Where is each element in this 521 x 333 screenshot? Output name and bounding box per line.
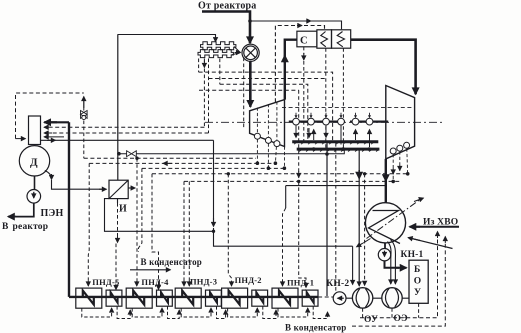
wire: slanted arrow into HX bottom (411, 238, 453, 248)
safety valve on dashed riser (83, 97, 85, 109)
svg-text:ПЭН: ПЭН (41, 208, 64, 219)
wire: HX to KN-1 (384, 243, 386, 249)
wire: steam to 2nd reheat stage (250, 20, 311, 22)
wire: extraction bus y158 (dashed) (84, 157, 256, 159)
wire: reheated steam to LPC (351, 40, 416, 94)
wire: drops to PND-3 (dashed) (183, 181, 185, 283)
wire: LP extraction stems (dashed) (393, 149, 407, 181)
wire: crenellated bars outlet to valve (231, 47, 240, 56)
wire: evaporator steam out right (128, 187, 135, 189)
wire: from XBO into HX (thick arrow) (412, 226, 459, 228)
wire: steam to 2nd reheat stage cont. (311, 21, 342, 29)
wire: gland-header drain verticals (dashed) (198, 59, 200, 73)
wire: collector to KN-2 area (solid) (326, 143, 328, 296)
wire: condensate down to gland cooler OU (352, 246, 354, 284)
svg-text:КН-2: КН-2 (326, 279, 349, 289)
HP extraction point 2 (265, 137, 271, 143)
wire: LP exhaust down to HX (thick) (385, 159, 387, 203)
svg-text:О: О (414, 277, 422, 287)
deaerator tank Д (19, 146, 49, 176)
wire: main steam valve to HPC (249, 62, 252, 107)
wire: PEN discharge to reactor (10, 203, 34, 217)
node: stems of HP extractions (256, 161, 260, 165)
HP turbine cylinder (250, 100, 285, 147)
wire: thin line into deaerator (44, 136, 64, 138)
wire: HP exhaust up to separator (285, 40, 297, 100)
component: gland steam header (crenellated bar lower) (198, 50, 233, 58)
HP extraction point 1 (254, 133, 260, 139)
component: gland steam header (crenellated bar upper) (201, 42, 236, 50)
wire: bus y168 drop to PND-4 (139, 168, 142, 252)
deaerator shell (29, 116, 41, 145)
wire: drain bus 3 (dashed) (220, 84, 308, 141)
wire: leak-off dashed vertical (243, 58, 245, 128)
LP extraction point 3 (404, 142, 410, 148)
wire: long vertical line x118 down to evaporator (117, 35, 119, 181)
wire: bus4 drop to lower bus (298, 90, 300, 181)
wire: riser continues down to PND-5 (dashed) (83, 121, 85, 159)
condensate pump KN-1 (378, 249, 390, 261)
wire: drain bus 2 (dashed) (209, 78, 326, 80)
wire: evaporator steam dashed vertical to PND-4 (136, 158, 138, 283)
LP extraction point 1 (390, 148, 396, 154)
dashed return rails right side (363, 303, 419, 318)
drain cooler 5 (302, 290, 318, 306)
svg-text:ПНД-3: ПНД-3 (190, 277, 217, 287)
valve on evaporator line (117, 152, 121, 156)
wire: extraction bus y181.4 (dashed) (184, 180, 400, 182)
valve: main stop valve (circle with X) (242, 44, 259, 61)
svg-text:Из ХВО: Из ХВО (423, 218, 458, 228)
svg-text:ПНД-4: ПНД-4 (141, 277, 169, 287)
wire: dashed drop x335.8 (335, 143, 337, 294)
heater PND-5 (76, 288, 102, 308)
separator C box (297, 31, 317, 47)
wires: nozzle downcomers with arrows (295, 125, 297, 137)
hatching under collectors (294, 142, 379, 151)
dashed box upper-left (16, 93, 84, 139)
extraction nozzles (circles on manifold) (293, 118, 373, 125)
svg-text:И: И (119, 204, 127, 215)
wire: HX drain curves to OE (388, 242, 392, 285)
collector header 2 (thick) (297, 148, 380, 151)
LP extraction point 2 (397, 145, 403, 151)
drain cooler 2 (157, 290, 173, 306)
wire: drop to PND-2 (dashed) (228, 174, 231, 283)
drain cascade U-connectors (dashed) (82, 306, 328, 318)
wire: line x118 to collector (solid) (119, 149, 344, 154)
wire: main condensate line left riser (thick) (68, 122, 70, 297)
wire: heating steam bus into deaerator (dashed) (52, 126, 204, 128)
extraction manifold bar right (350, 120, 388, 122)
reheater stage 2 box (332, 30, 351, 48)
wire: drop of deaerator drain at x213.5 (213, 140, 215, 222)
wire: dashed stems inside HP (257, 102, 277, 141)
wire: arrow to condenser (middle) (130, 269, 171, 271)
heater PND-3 (175, 288, 201, 308)
wire: deaerator drain going right (41, 139, 214, 141)
wire: bus y173.8 drop to small cooler 2 (152, 174, 159, 288)
svg-text:От реактора: От реактора (198, 1, 257, 12)
extraction manifold bar left (289, 120, 345, 122)
wire: extraction bus y163.4 (dashed, arrow left) (89, 162, 275, 164)
wire: evaporator bottom drain (dashed) to small cooler (117, 199, 119, 203)
svg-text:С: С (300, 36, 308, 47)
wire: bus y163 drop to PND-5 (87, 163, 90, 283)
wire: reheater2 drain (dashed) (342, 48, 344, 149)
LP turbine cylinder (386, 86, 415, 159)
wire: second bus into deaerator (dashed) (52, 132, 209, 134)
wire: extraction bus y173.8 (dashed) (152, 173, 408, 175)
drain cooler 1 (106, 290, 122, 306)
reheater stage 1 box (317, 30, 332, 48)
heater PND-4 (126, 288, 152, 308)
wire: solid feed line to PND-1 (286, 186, 386, 208)
svg-text:ПНД-1: ПНД-1 (287, 277, 314, 287)
heater PND-1 (272, 288, 298, 308)
wire: main steam from reactor (thick L) (202, 12, 250, 44)
collector header 1 (thick) (292, 140, 378, 143)
svg-text:Д: Д (30, 157, 38, 169)
wire: HP extraction stems (dashed) (257, 139, 284, 167)
node: junctions on collector 2 (312, 147, 316, 151)
ticks above nozzles (295, 113, 372, 118)
drain cooler 4 (252, 290, 268, 306)
BOU box (409, 260, 428, 303)
node: junction on main steam (248, 19, 252, 23)
shaft line (dash-dot) (205, 121, 443, 123)
svg-text:ПНД-2: ПНД-2 (235, 275, 262, 285)
heater PND-2 (222, 288, 248, 308)
wire: separator drain (dashed) (303, 47, 305, 55)
svg-text:ОУ: ОУ (364, 315, 378, 325)
svg-text:У: У (414, 288, 421, 298)
wire: dashed link heater row to KN-2 (318, 296, 333, 298)
svg-text:КН-1: КН-1 (401, 250, 424, 260)
wire: deaerator to evaporator feed (45, 171, 52, 180)
wire: reheater1 drain (dashed) (325, 48, 327, 149)
svg-text:ПНД-5: ПНД-5 (92, 277, 119, 287)
heat exchanger circle (gland steam condenser) (365, 203, 405, 243)
feed pump PEN (34, 176, 36, 190)
zigzag inside HX (369, 211, 401, 244)
wire: evaporator drain to condenser line (105, 199, 214, 232)
wire: dashed down to OU (364, 174, 366, 284)
svg-text:Вреактор: Вреактор (2, 222, 48, 232)
wire: drain bus 4 (dashed) (199, 89, 299, 91)
node: junction (212, 230, 215, 233)
svg-text:Б: Б (414, 265, 420, 275)
wire: extraction bus y168.4 (dashed) (142, 167, 285, 169)
evaporator И box (109, 180, 128, 198)
wire: HP extraction to reheat stage 1 (dashed) (275, 26, 297, 103)
wire: dashed line across above shaft (282, 107, 414, 109)
wire: feed line to gland header (118, 35, 216, 42)
arrows up into box bottoms (112, 308, 328, 315)
svg-text:ОЭ: ОЭ (394, 314, 408, 324)
wire: main condensate into deaerator (thick) (48, 121, 69, 123)
wire: heater row main line (thick) (69, 296, 318, 298)
svg-text:В конденсатор: В конденсатор (285, 323, 347, 333)
svg-text:В конденсатор: В конденсатор (141, 257, 203, 267)
gland steam cooler OU (352, 288, 372, 308)
wire: collector2 down to OU (solid) (358, 151, 360, 287)
node: junction on bus y158 (135, 157, 138, 160)
dash-dot diagonal through HX with arrow (367, 200, 421, 239)
HP extraction point 3 (274, 141, 280, 147)
condensate pump KN-2 (333, 292, 346, 305)
wires: circle links (346, 297, 409, 299)
wire: KN-1 to BOU (thick) (385, 261, 400, 268)
ejector cooler OE (382, 288, 402, 308)
wire: drain bus 1 (dashed) (199, 72, 333, 141)
drain cooler 3 (206, 290, 222, 306)
